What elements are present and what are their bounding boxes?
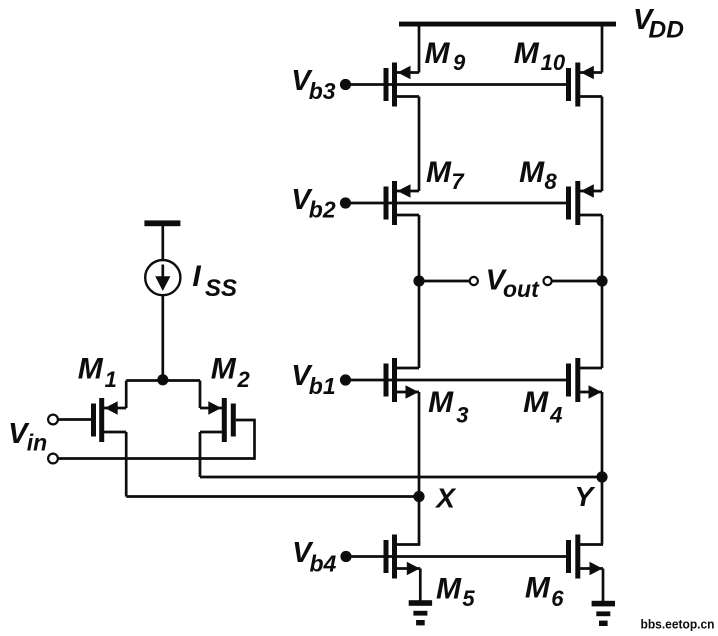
wire Vin+ to M1 gate — [58, 418, 91, 421]
node Vb3 terminal dot — [340, 79, 351, 90]
wire M3 source to node X to M5 drain — [418, 392, 421, 545]
wire M2 drain to node Y — [199, 432, 202, 477]
label VDD — [633, 4, 684, 44]
label Y — [575, 481, 596, 512]
transistor M3 — [384, 358, 420, 402]
label X — [434, 482, 457, 513]
node Vout right junction — [596, 275, 607, 286]
wire M6 source to ground — [602, 569, 605, 602]
svg-text:I: I — [192, 260, 201, 293]
ground under M5 — [409, 600, 432, 625]
label M5 — [436, 573, 475, 611]
svg-text:M: M — [425, 37, 451, 70]
wire tail to M2 source — [199, 381, 202, 409]
wire M5 source to ground — [419, 569, 422, 602]
node X junction — [413, 491, 424, 502]
svg-text:8: 8 — [545, 169, 558, 194]
label M9 — [425, 37, 467, 75]
node Y junction — [596, 471, 607, 482]
svg-text:M: M — [514, 37, 540, 70]
watermark bbs.eetop.cn — [641, 618, 715, 632]
wire M4 source to node Y to M6 drain — [601, 392, 604, 545]
wire Vout right — [552, 280, 602, 283]
wire node X rail — [126, 495, 419, 498]
wire VDD to M9 source — [418, 24, 421, 73]
wire ISS to tail node — [161, 295, 164, 380]
svg-text:1: 1 — [105, 367, 117, 392]
svg-text:4: 4 — [549, 403, 562, 428]
svg-text:bbs.eetop.cn: bbs.eetop.cn — [641, 618, 715, 632]
transistor M5 — [384, 535, 421, 579]
wire VDD to M10 source — [601, 24, 604, 73]
wire tail to M1 source — [125, 381, 128, 409]
svg-text:10: 10 — [541, 50, 566, 75]
node Vb2 terminal dot — [340, 197, 351, 208]
svg-text:3: 3 — [456, 403, 468, 428]
transistor M2 — [200, 398, 236, 442]
svg-text:b4: b4 — [310, 550, 337, 576]
wire M7 drain to M3 drain — [418, 215, 421, 368]
wire Vin- to M2 gate — [58, 419, 254, 460]
node tail junction dot — [157, 374, 168, 385]
svg-text:M: M — [78, 352, 104, 385]
wire Vout left — [419, 280, 470, 283]
transistor M8 — [566, 181, 602, 225]
svg-text:out: out — [503, 276, 540, 302]
wire M9 drain to M7 source — [418, 97, 421, 192]
svg-text:SS: SS — [205, 275, 237, 302]
wire node Y rail — [200, 476, 602, 479]
svg-text:M: M — [525, 572, 551, 605]
label Vb4 — [292, 537, 336, 576]
transistor M1 — [91, 398, 126, 442]
svg-text:in: in — [27, 430, 47, 456]
terminal Vout left circle — [470, 277, 478, 285]
supply bar above ISS — [144, 220, 180, 226]
label Vb3 — [291, 65, 336, 104]
wire Vb2 gate bus — [346, 202, 567, 205]
svg-text:X: X — [434, 482, 457, 513]
label M7 — [426, 156, 465, 194]
wire Vb3 gate bus — [346, 83, 567, 86]
label M6 — [525, 572, 564, 611]
svg-text:b3: b3 — [309, 78, 336, 104]
label M2 — [211, 352, 251, 392]
terminal Vin+ circle — [48, 415, 58, 425]
label Vb2 — [291, 184, 336, 223]
svg-text:7: 7 — [451, 169, 465, 194]
wire Vb4 gate bus — [346, 555, 566, 558]
label M10 — [514, 37, 566, 75]
transistor M6 — [566, 535, 603, 579]
svg-text:5: 5 — [462, 586, 475, 611]
label M3 — [428, 386, 468, 428]
svg-text:M: M — [426, 156, 452, 189]
label M4 — [523, 386, 562, 428]
wire supply bar to ISS — [161, 226, 164, 261]
terminal Vout right circle — [544, 277, 552, 285]
svg-text:M: M — [523, 386, 549, 419]
ground under M6 — [592, 601, 615, 626]
svg-text:Y: Y — [575, 481, 596, 512]
svg-text:M: M — [519, 156, 545, 189]
current source ISS — [145, 260, 180, 295]
svg-text:M: M — [436, 573, 462, 606]
wire M8 drain to M4 drain — [601, 215, 604, 368]
label Vin — [8, 418, 47, 456]
label Vout — [486, 264, 540, 302]
label M1 — [78, 352, 117, 392]
wire tail rail — [126, 379, 200, 382]
svg-text:b1: b1 — [309, 373, 336, 399]
transistor M4 — [566, 358, 602, 402]
svg-text:M: M — [428, 386, 454, 419]
wire Vb1 gate bus — [346, 379, 567, 382]
label ISS — [192, 260, 237, 302]
label M8 — [519, 156, 557, 194]
svg-text:2: 2 — [237, 367, 251, 392]
svg-text:b2: b2 — [309, 197, 336, 223]
transistor M10 — [566, 63, 602, 107]
wire M10 drain to M8 source — [601, 97, 604, 192]
VDD power rail — [399, 22, 616, 27]
transistor M7 — [384, 181, 420, 225]
wire M1 drain to node X — [125, 432, 128, 497]
node Vb1 terminal dot — [340, 374, 351, 385]
node Vb4 terminal dot — [340, 551, 351, 562]
svg-text:9: 9 — [453, 50, 466, 75]
svg-text:6: 6 — [551, 586, 564, 611]
terminal Vin- circle — [48, 454, 58, 464]
svg-text:DD: DD — [649, 17, 684, 44]
svg-text:M: M — [211, 352, 237, 385]
node Vout left junction — [413, 275, 424, 286]
transistor M9 — [384, 63, 420, 107]
label Vb1 — [291, 360, 335, 399]
